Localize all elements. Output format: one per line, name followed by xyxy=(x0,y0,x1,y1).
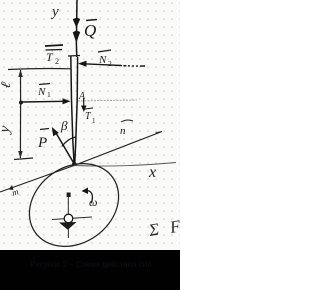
incline line (n direction through contact point) xyxy=(0,132,162,193)
wheel (tilted ellipse) xyxy=(13,147,134,264)
label n bar xyxy=(121,120,133,122)
center circle xyxy=(64,214,73,223)
bottom tick line xyxy=(14,158,33,160)
label T2 bar (upper friction force) xyxy=(45,45,63,46)
beta arc xyxy=(62,137,76,147)
svg-text:Рисунок 2 – Схема действия сил: Рисунок 2 – Схема действия сил xyxy=(30,260,152,269)
svg-text:β: β xyxy=(60,118,68,133)
top dimension line xyxy=(8,68,71,71)
svg-text:y: y xyxy=(50,4,59,20)
svg-text:2: 2 xyxy=(55,57,59,66)
svg-text:ω: ω xyxy=(89,195,97,209)
label P bar xyxy=(40,129,49,130)
label T1 xyxy=(85,108,93,109)
label N2 bar xyxy=(98,50,111,52)
y-axis (vertical line at top, continues into rod) xyxy=(75,0,78,57)
label Q bar xyxy=(86,20,97,21)
force T1 (small down arrow at A) xyxy=(83,98,85,108)
force P (arrow up-left from contact point) xyxy=(56,133,74,164)
left dimension vertical with arrows xyxy=(19,70,21,158)
thin reference line through A to the right xyxy=(78,100,137,101)
force Q (double arrowheads down along axis) xyxy=(73,18,80,28)
force N2 (arrow left onto rod) xyxy=(84,64,145,66)
svg-text:2: 2 xyxy=(108,59,112,68)
wheel center mark: vertical line xyxy=(67,196,69,238)
svg-text:Q: Q xyxy=(84,21,96,40)
junction dot on dimension line xyxy=(19,101,23,105)
svg-text:N: N xyxy=(98,54,107,66)
svg-text:x: x xyxy=(148,164,156,181)
svg-text:P: P xyxy=(37,135,47,151)
rod (two vertical lines converging to contact point) xyxy=(71,56,74,162)
svg-text:N: N xyxy=(37,86,46,98)
center mark top square xyxy=(67,193,71,198)
label N1 bar xyxy=(39,84,50,85)
black caption band xyxy=(0,250,180,290)
svg-text:n: n xyxy=(120,125,126,137)
center support triangle xyxy=(59,222,77,230)
svg-text:A: A xyxy=(78,91,86,102)
label tau (tangent mark lower-left) xyxy=(9,185,14,190)
contact point junction xyxy=(72,162,76,166)
svg-text:1: 1 xyxy=(92,117,96,125)
svg-text:1: 1 xyxy=(47,90,51,99)
force N1 (arrow right onto rod) xyxy=(22,100,64,103)
omega rotation arrow xyxy=(86,190,93,203)
rod top cap xyxy=(68,55,80,58)
center mark horizontal line xyxy=(52,217,92,220)
small arrow at n end xyxy=(156,132,163,133)
x-axis from contact point xyxy=(74,163,176,167)
